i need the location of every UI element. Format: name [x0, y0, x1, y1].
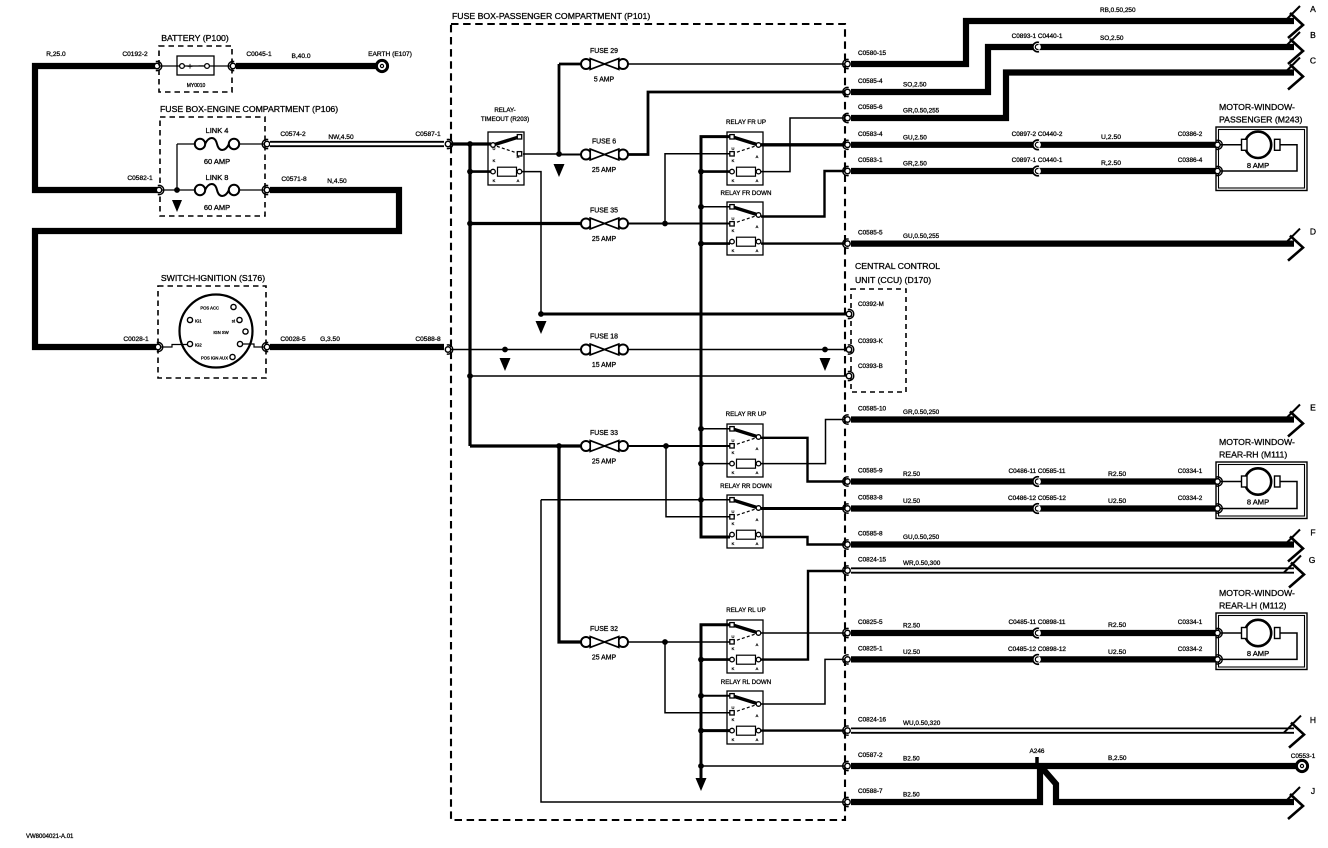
svg-text:8 AMP: 8 AMP	[1247, 161, 1269, 170]
wire RR UP coil output to row E-arrow exit	[761, 420, 845, 464]
fuse FUSE 35 symbol	[581, 218, 628, 229]
svg-text:WU,0.50,320: WU,0.50,320	[903, 720, 941, 727]
svg-text:RELAY FR DOWN: RELAY FR DOWN	[721, 190, 772, 197]
connector C0587-1 at fusebox edge	[445, 139, 452, 148]
fusebox edge connector C0585-8	[843, 540, 850, 549]
svg-text:K: K	[732, 470, 735, 475]
motor PASSENGER (M243) outer box	[1216, 127, 1307, 191]
svg-text:C0574-2: C0574-2	[280, 131, 306, 138]
svg-text:GR,2.50: GR,2.50	[903, 161, 927, 168]
svg-text:UNIT (CCU) (D170): UNIT (CCU) (D170)	[855, 275, 931, 285]
ground stub arrow below CCU feed junction	[536, 321, 547, 334]
svg-text:RELAY RR UP: RELAY RR UP	[726, 411, 767, 418]
motor REAR-LH (M112) lower terminal	[1215, 655, 1222, 664]
wire RR DOWN common to row U exit	[761, 507, 845, 510]
junction CCU feed	[538, 311, 544, 317]
wire row C0585-5 to off-page D	[851, 241, 1294, 247]
junction fuse18 output stub	[822, 347, 828, 353]
svg-text:RELAY FR UP: RELAY FR UP	[726, 119, 766, 126]
wire R203 coil output to CCU riser	[520, 172, 541, 314]
ring terminal C0553-1	[1296, 760, 1307, 771]
wire row C C0585-6 to off-page C	[851, 73, 1294, 119]
svg-text:A: A	[756, 517, 759, 522]
wire bus to FR UP coil	[701, 170, 730, 173]
fuse FUSE 33 symbol	[581, 441, 628, 452]
svg-text:U2.50: U2.50	[1108, 649, 1126, 656]
svg-text:RELAY-: RELAY-	[494, 107, 515, 114]
wire bus to RL DOWN switch pin	[701, 695, 730, 697]
wire fuse29 output to C0580-15	[628, 63, 845, 65]
inline connector C0485-11 C0898-11	[1033, 628, 1041, 638]
svg-text:B: B	[1310, 30, 1316, 40]
CCU connector C0392	[846, 309, 853, 318]
ground stub arrow fuse18 output	[820, 358, 831, 371]
connector C0028-1	[155, 342, 162, 351]
svg-text:IG1: IG1	[195, 319, 202, 324]
battery box P100 dashed outline	[159, 46, 232, 92]
motor PASSENGER (M243) upper terminal	[1215, 140, 1222, 149]
junction bus FR DOWN coil	[698, 241, 704, 247]
wire bus to RL DOWN coil	[701, 729, 730, 732]
svg-text:SO,2.50: SO,2.50	[1100, 35, 1124, 42]
wire row D C0583-4 to M243	[851, 142, 1216, 148]
svg-text:C0585-4: C0585-4	[858, 78, 883, 85]
junction bus FR UP coil	[698, 169, 704, 175]
svg-text:C0585-9: C0585-9	[858, 468, 883, 475]
svg-text:RELAY RL UP: RELAY RL UP	[726, 607, 765, 614]
junction fuse35 feed	[467, 221, 473, 227]
wire link4-link8 vertical	[176, 144, 178, 190]
svg-text:C0192-2: C0192-2	[122, 51, 148, 58]
svg-text:A: A	[517, 178, 520, 183]
svg-text:R2.50: R2.50	[1108, 622, 1126, 629]
motor REAR-RH (M111) internal wiring	[1217, 481, 1242, 483]
svg-text:K: K	[732, 717, 735, 722]
svg-text:C0897-2 C0440-2: C0897-2 C0440-2	[1012, 131, 1063, 138]
svg-text:B,2.50: B,2.50	[1108, 755, 1127, 762]
svg-text:C0585-5: C0585-5	[858, 230, 883, 237]
svg-text:25 AMP: 25 AMP	[592, 167, 617, 174]
svg-text:WR,0.50,300: WR,0.50,300	[903, 560, 941, 567]
svg-text:EARTH (E107): EARTH (E107)	[368, 51, 412, 58]
wire RL UP common to row R exit	[761, 632, 845, 634]
relay RR UP	[727, 424, 763, 477]
wire relay R203 NO contact to fuse6 node	[523, 153, 559, 155]
svg-text:POS IGN AUX: POS IGN AUX	[201, 356, 228, 361]
motor REAR-LH (M112) internal wiring	[1217, 632, 1242, 634]
ground stub arrow below link junction	[172, 200, 182, 212]
wire RR DOWN coil output to row F exit	[761, 537, 845, 545]
fusebox edge connector C0825-5	[843, 628, 850, 637]
ground stub arrow bottom of rear-left bus	[696, 778, 707, 791]
fusebox edge connector C0585-4	[843, 87, 850, 96]
wire row C0585-9 to M111	[851, 478, 1216, 484]
wire B,40.0 battery to earth	[236, 63, 376, 69]
wire A246 branch to row J right portion	[1043, 769, 1294, 802]
svg-text:60 AMP: 60 AMP	[204, 203, 230, 212]
svg-text:FUSE 18: FUSE 18	[590, 334, 618, 341]
svg-text:LINK 8: LINK 8	[206, 173, 229, 182]
wire fuse33 feed corner	[470, 444, 581, 447]
svg-text:A: A	[756, 737, 759, 742]
svg-text:K: K	[732, 158, 735, 163]
inline connector C0486-11 C0585-11	[1033, 477, 1041, 487]
svg-text:A: A	[756, 666, 759, 671]
svg-text:SWITCH-IGNITION (S176): SWITCH-IGNITION (S176)	[161, 273, 265, 283]
wire RR DOWN switch pin feed from left riser	[541, 499, 730, 501]
splice A246 tick	[1035, 757, 1039, 763]
fuse FUSE 29 symbol	[581, 59, 628, 70]
relay R203 RELAY-TIMEOUT	[488, 132, 524, 185]
svg-text:15 AMP: 15 AMP	[592, 362, 617, 369]
off-page arrow B	[1283, 30, 1316, 64]
fusible link LINK 8	[195, 184, 239, 196]
wire bus to row C0587-2 exit	[701, 765, 845, 767]
wire vertical fuse33 to fuse32	[559, 446, 581, 642]
svg-text:A: A	[517, 154, 520, 159]
svg-text:A: A	[756, 470, 759, 475]
wire fuse6 output elbow to row B exit	[628, 92, 845, 155]
motor REAR-RH (M111) outer box	[1216, 462, 1307, 519]
junction bus row exit	[698, 763, 704, 769]
off-page arrow D	[1283, 227, 1316, 261]
wire row B C0585-4 to off-page B	[851, 47, 1294, 92]
svg-text:C0571-8: C0571-8	[281, 176, 307, 183]
inline connector C0897-1 C0440-1	[1033, 166, 1041, 176]
junction bus RL DOWN coil	[698, 728, 704, 734]
junction bus RR UP coil	[698, 461, 704, 467]
motor REAR-RH (M111) upper terminal	[1215, 477, 1222, 486]
svg-text:U: U	[732, 146, 735, 151]
wire fuse33 output to RR UP NO contact	[628, 445, 730, 447]
relay bus vertical (front relays)	[701, 137, 730, 537]
svg-text:C0334-1: C0334-1	[1178, 468, 1203, 475]
svg-text:8 AMP: 8 AMP	[1247, 498, 1269, 507]
svg-text:NW,4.50: NW,4.50	[328, 134, 354, 141]
svg-text:+: +	[187, 62, 193, 73]
wire RL UP coil output to row G exit	[761, 571, 845, 660]
motor REAR-LH (M112) outer box	[1216, 613, 1307, 670]
svg-text:K: K	[732, 248, 735, 253]
svg-text:H: H	[1310, 715, 1316, 725]
svg-text:U: U	[732, 705, 735, 710]
wire main vertical to CCU C0393-B	[470, 375, 847, 377]
junction bus RR DOWN pin	[698, 497, 704, 503]
svg-text:25 AMP: 25 AMP	[592, 459, 617, 466]
wire main vertical feed from NW	[468, 144, 471, 446]
svg-text:U: U	[732, 634, 735, 639]
off-page arrow J	[1283, 786, 1315, 819]
relay RR DOWN	[727, 495, 763, 548]
ground stub arrow fuse18 feed	[500, 358, 511, 371]
svg-text:C0824-15: C0824-15	[858, 557, 887, 564]
svg-text:GR,0.50,255: GR,0.50,255	[903, 108, 940, 115]
wire row C0587-2 to splice A246 and C0553-1	[851, 763, 1296, 769]
wire G,3.50 ignition to passenger fusebox	[270, 344, 444, 350]
svg-text:C0553-1: C0553-1	[1291, 753, 1316, 760]
svg-text:K: K	[493, 158, 496, 163]
connector C0045-1	[228, 61, 235, 70]
svg-text:C0334-1: C0334-1	[1178, 619, 1203, 626]
svg-text:K: K	[732, 541, 735, 546]
junction fuse35 output to FR UP riser	[662, 221, 668, 227]
wire bus to RL UP coil	[701, 658, 730, 661]
svg-text:C0587-1: C0587-1	[415, 131, 441, 138]
svg-text:C0393-K: C0393-K	[858, 338, 884, 345]
svg-text:FUSE 32: FUSE 32	[590, 626, 618, 633]
wire bus to RR UP coil	[701, 463, 730, 465]
junction on link8 feed	[174, 187, 180, 193]
svg-text:CENTRAL CONTROL: CENTRAL CONTROL	[855, 261, 940, 271]
CCU connector C0393-K	[846, 345, 853, 354]
svg-text:REAR-LH (M112): REAR-LH (M112)	[1219, 601, 1287, 611]
junction NW feed	[467, 141, 473, 147]
svg-text:TIMEOUT (R203): TIMEOUT (R203)	[481, 116, 529, 123]
wire row E C0583-1 to M243	[851, 168, 1216, 174]
svg-text:U2.50: U2.50	[1108, 498, 1126, 505]
motor REAR-LH (M112) upper terminal	[1215, 628, 1222, 637]
svg-text:A: A	[756, 154, 759, 159]
svg-text:−: −	[198, 61, 204, 72]
svg-text:FUSE 35: FUSE 35	[590, 208, 618, 215]
wire fuse35 output to relay FR DOWN NO contact	[628, 223, 730, 225]
wire fuse18 feed from C0588-8	[451, 349, 581, 351]
fusebox edge connector C0580-15	[843, 59, 850, 68]
svg-text:C0485-11 C0898-11: C0485-11 C0898-11	[1009, 619, 1066, 626]
svg-text:PASSENGER (M243): PASSENGER (M243)	[1219, 115, 1302, 125]
svg-text:C0580-15: C0580-15	[858, 50, 887, 57]
wire bus to FR DOWN switch pin	[701, 206, 730, 208]
wire riser to RR DOWN NO contact	[666, 446, 730, 517]
svg-text:N,4.50: N,4.50	[327, 178, 347, 185]
wire link4 output inside	[239, 143, 264, 145]
wire row C0585-8 to off-page F	[851, 541, 1294, 547]
fusebox edge connector C0585-10	[843, 415, 850, 424]
svg-text:A: A	[1310, 4, 1316, 14]
svg-text:SO,2.50: SO,2.50	[903, 82, 927, 89]
wire fuse29 feed corner	[559, 63, 581, 66]
svg-text:C0585-8: C0585-8	[858, 531, 883, 538]
wire row C0825-1 to M112	[851, 656, 1216, 662]
svg-text:A: A	[756, 713, 759, 718]
wire riser to RL DOWN NO contact	[665, 642, 730, 713]
svg-text:RELAY RL DOWN: RELAY RL DOWN	[721, 679, 771, 686]
svg-text:A: A	[756, 446, 759, 451]
fusebox edge connector C0583-1	[843, 166, 850, 175]
svg-text:A: A	[756, 642, 759, 647]
svg-text:K: K	[732, 737, 735, 742]
svg-text:K: K	[493, 178, 496, 183]
junction bus RL DOWN pin	[698, 693, 704, 699]
motor PASSENGER (M243) internal wiring	[1217, 144, 1242, 146]
CCU D170 dashed outline	[851, 289, 906, 392]
svg-text:C0583-4: C0583-4	[858, 131, 883, 138]
ignition switch S176 dashed outline	[158, 286, 266, 378]
svg-text:A: A	[756, 248, 759, 253]
fusible link LINK 4	[195, 138, 239, 150]
motor REAR-RH (M111) armature symbol	[1242, 468, 1281, 494]
fusebox edge connector C0588-7	[843, 797, 850, 806]
fuse FUSE 6 symbol	[581, 149, 628, 160]
svg-text:FUSE 33: FUSE 33	[590, 430, 618, 437]
svg-text:FUSE BOX-PASSENGER COMPARTMENT: FUSE BOX-PASSENGER COMPARTMENT (P101)	[452, 11, 650, 21]
svg-text:U: U	[732, 216, 735, 221]
inline connector C0485-12 C0898-12	[1033, 655, 1041, 665]
svg-text:BATTERY (P100): BATTERY (P100)	[161, 33, 229, 43]
wire CCU feed row C0392	[541, 313, 847, 316]
svg-text:R,25.0: R,25.0	[46, 51, 66, 58]
junction fuse33 to fuse32 branch	[556, 443, 562, 449]
svg-text:K: K	[732, 666, 735, 671]
svg-text:U2.50: U2.50	[903, 649, 920, 656]
wire link8 feed	[161, 189, 195, 191]
svg-text:RB,0.50,250: RB,0.50,250	[1100, 7, 1136, 14]
wire ignition output jog	[243, 344, 264, 347]
inline connector C0897-2 C0440-2	[1033, 140, 1041, 150]
motor REAR-LH (M112) armature symbol	[1242, 620, 1281, 646]
svg-text:C0588-8: C0588-8	[415, 336, 441, 343]
svg-text:C0824-16: C0824-16	[858, 717, 887, 724]
connector C0028-5	[262, 342, 269, 351]
wire row C0824-16 to off-page H (hollow)	[851, 727, 1294, 733]
svg-text:U: U	[732, 438, 735, 443]
svg-text:E: E	[1310, 403, 1316, 413]
wire link8 output inside	[239, 189, 264, 191]
earth terminal E107	[376, 60, 387, 71]
wire fuse32 output to RL UP NO contact	[628, 641, 730, 643]
junction fuse32 output	[662, 639, 668, 645]
wire riser to FR UP NO contact	[665, 154, 730, 224]
wire relay R203 coil feed	[470, 170, 491, 173]
wire long vertical to row J	[541, 500, 845, 802]
svg-text:B2.50: B2.50	[903, 792, 920, 799]
connector C0192-2	[154, 61, 161, 70]
off-page arrow E	[1283, 403, 1316, 437]
svg-text:C0334-2: C0334-2	[1178, 646, 1203, 653]
svg-text:R2.50: R2.50	[1108, 471, 1126, 478]
svg-text:IGN SW: IGN SW	[213, 330, 228, 335]
wire NW,4.50 link4 to passenger fusebox (hollow)	[270, 141, 444, 147]
svg-text:U: U	[732, 509, 735, 514]
wire fuse18 output to CCU C0393-K	[628, 349, 847, 351]
fusebox edge connector C0824-15	[843, 566, 850, 575]
fusebox edge connector C0585-6	[843, 113, 850, 122]
wire FR DOWN common to row E exit	[761, 171, 845, 217]
svg-text:F: F	[1310, 528, 1315, 538]
wire link4 feed	[177, 143, 195, 145]
junction fuse6 node	[556, 151, 562, 157]
wire row C0825-5 to M112	[851, 630, 1216, 636]
svg-text:U,2.50: U,2.50	[1101, 134, 1121, 141]
svg-text:B,40.0: B,40.0	[291, 53, 310, 60]
wire row C0585-10 to off-page E	[851, 416, 1294, 422]
relay bus to RR UP switch pin	[701, 428, 730, 430]
inline connector C0486-12 C0585-12	[1033, 504, 1041, 514]
svg-text:MY0010: MY0010	[187, 83, 206, 89]
svg-text:MOTOR-WINDOW-: MOTOR-WINDOW-	[1219, 102, 1295, 112]
motor PASSENGER (M243) armature symbol	[1242, 132, 1281, 158]
fusebox edge connector C0824-16	[843, 726, 850, 735]
wire FR UP coil output to row C exit	[761, 118, 845, 172]
svg-text:MOTOR-WINDOW-: MOTOR-WINDOW-	[1219, 437, 1295, 447]
svg-text:A: A	[756, 541, 759, 546]
svg-text:C0585-10: C0585-10	[858, 406, 887, 413]
wire fuse35 feed	[470, 222, 581, 225]
svg-text:A: A	[756, 224, 759, 229]
motor REAR-RH (M111) lower terminal	[1215, 504, 1222, 513]
svg-text:MOTOR-WINDOW-: MOTOR-WINDOW-	[1219, 588, 1295, 598]
svg-text:U2.50: U2.50	[903, 498, 920, 505]
svg-text:C0392-M: C0392-M	[858, 301, 884, 308]
svg-text:R2.50: R2.50	[903, 623, 920, 630]
svg-text:C0582-1: C0582-1	[127, 175, 153, 182]
svg-text:D: D	[1310, 227, 1316, 237]
motor PASSENGER (M243) lower terminal	[1215, 166, 1222, 175]
junction fuse18 feed stub	[502, 347, 508, 353]
fusebox edge connector C0583-4	[843, 140, 850, 149]
svg-text:C0393-B: C0393-B	[858, 363, 883, 370]
svg-text:C0386-4: C0386-4	[1178, 157, 1203, 164]
wire N,4.50 link8 to ignition switch	[35, 190, 399, 347]
svg-text:R2.50: R2.50	[903, 471, 920, 478]
svg-text:C0825-1: C0825-1	[858, 645, 883, 652]
svg-text:C0588-7: C0588-7	[858, 788, 883, 795]
wire row A C0580-15 to off-page A	[851, 21, 1294, 64]
fuse FUSE 32 symbol	[581, 637, 628, 648]
wire row C0824-15 to off-page G (hollow)	[851, 567, 1294, 573]
svg-text:REAR-RH (M111): REAR-RH (M111)	[1219, 450, 1287, 460]
svg-text:K: K	[732, 228, 735, 233]
svg-text:C0897-1 C0440-1: C0897-1 C0440-1	[1012, 157, 1063, 164]
svg-text:U: U	[493, 146, 496, 151]
relay FR DOWN	[727, 202, 763, 255]
svg-text:B2.50: B2.50	[903, 756, 920, 763]
off-page arrow C	[1283, 56, 1316, 90]
svg-text:C0587-2: C0587-2	[858, 752, 883, 759]
svg-text:C0028-5: C0028-5	[280, 336, 306, 343]
wire bus to FR DOWN coil	[701, 242, 730, 245]
wire RL DOWN coil output to row H exit	[761, 729, 845, 731]
wire node to fuse6	[559, 154, 581, 156]
svg-text:K: K	[732, 450, 735, 455]
passenger fuse box P101 dashed outline	[451, 24, 845, 820]
relay FR UP	[727, 132, 763, 185]
svg-text:K: K	[732, 521, 735, 526]
svg-text:A246: A246	[1030, 748, 1045, 755]
junction main vertical CCU branch	[467, 373, 473, 379]
wire ignition input jog	[159, 345, 187, 348]
connector C0571-8	[262, 185, 269, 194]
junction fuse33 output riser	[663, 443, 669, 449]
svg-text:FUSE BOX-ENGINE COMPARTMENT (P: FUSE BOX-ENGINE COMPARTMENT (P106)	[160, 104, 338, 114]
svg-text:60 AMP: 60 AMP	[204, 157, 230, 166]
svg-text:C0583-1: C0583-1	[858, 157, 883, 164]
svg-text:25 AMP: 25 AMP	[592, 655, 617, 662]
svg-text:G,3.50: G,3.50	[320, 336, 340, 343]
connector C0588-8 at fusebox edge	[445, 345, 452, 354]
relay RL UP	[727, 620, 763, 673]
relay bus vertical (rear-left relays)	[701, 625, 730, 779]
svg-text:GR,0.50,250: GR,0.50,250	[903, 409, 940, 416]
svg-text:RELAY RR DOWN: RELAY RR DOWN	[720, 483, 772, 490]
fusebox edge connector C0585-5	[843, 239, 850, 248]
svg-text:POS ACC: POS ACC	[200, 306, 219, 311]
svg-text:C0583-8: C0583-8	[858, 495, 883, 502]
fusebox edge connector C0585-9	[843, 477, 850, 486]
svg-text:GU,0.50,250: GU,0.50,250	[903, 534, 940, 541]
off-page arrow F	[1283, 528, 1316, 562]
junction bus FR DOWN pin	[698, 204, 704, 210]
